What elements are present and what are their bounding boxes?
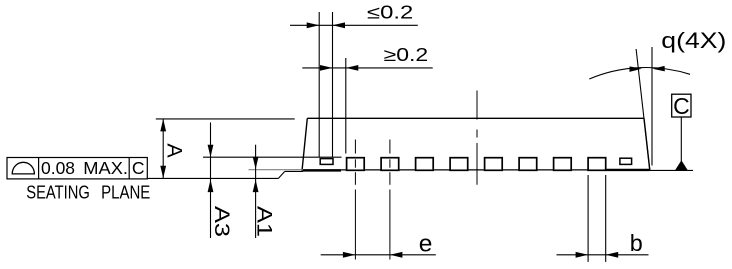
seating plane symbol (half dome) — [12, 162, 34, 174]
top extension line for A — [156, 118, 295, 120]
feature control frame box — [7, 158, 147, 179]
svg-text:A1: A1 — [253, 206, 277, 237]
svg-text:MAX.: MAX. — [83, 158, 128, 178]
extension line V2 (end-lead right edge) — [332, 12, 334, 157]
svg-text:0.08: 0.08 — [41, 158, 75, 178]
lead 6 — [519, 158, 537, 171]
arrowhead A1 down — [253, 157, 259, 170]
lead 3 — [416, 158, 434, 171]
end lead right (end view) — [620, 158, 632, 164]
lead 5 — [485, 158, 503, 171]
package bottom thick line right — [607, 169, 650, 171]
lead 1 — [347, 158, 365, 171]
e dimension line — [321, 254, 436, 256]
lead top extension line — [203, 156, 342, 158]
svg-text:A: A — [162, 143, 186, 158]
arrowhead e right — [390, 252, 403, 258]
right edge extension line (slanted) — [636, 49, 650, 170]
b extension line right — [605, 175, 607, 262]
arrowhead e left — [343, 252, 356, 258]
arrowhead b right — [606, 252, 619, 258]
arrowhead A3 down — [208, 145, 214, 158]
dimension A1 line — [255, 145, 257, 238]
svg-text:q(4X): q(4X) — [661, 28, 726, 53]
angle dimension arc — [589, 67, 690, 79]
extension line V3 (lead1 left edge) — [345, 58, 347, 154]
arrowhead GE0.2 left — [320, 65, 333, 71]
right vertical reference line — [651, 47, 653, 166]
arrowhead A1 up — [253, 180, 259, 193]
lead 4 — [450, 158, 468, 171]
seating plane line left — [147, 177, 278, 179]
dimension line LE 0.2 — [290, 24, 418, 26]
package centerline — [476, 91, 478, 185]
package bottom thick line left — [303, 169, 342, 172]
arrowhead A3 up — [208, 180, 214, 193]
datum C box — [672, 94, 691, 117]
lead 2 — [381, 158, 399, 171]
svg-text:C: C — [132, 158, 145, 178]
package body left edge (draft) — [302, 118, 307, 171]
lead 2 centerline — [389, 140, 391, 260]
seating plane line right — [650, 169, 694, 171]
b extension line left — [587, 175, 589, 262]
b dimension line — [557, 254, 649, 256]
svg-text:≤0.2: ≤0.2 — [367, 3, 413, 23]
lead 7 — [554, 158, 572, 171]
arrowhead angle left — [629, 66, 641, 72]
svg-text:C: C — [673, 93, 690, 119]
svg-text:SEATING: SEATING — [26, 182, 90, 203]
lead 8 — [588, 158, 606, 171]
svg-text:b: b — [630, 230, 643, 256]
lead 1 centerline — [354, 140, 356, 260]
dimension line GE 0.2 — [302, 67, 432, 69]
svg-text:A3: A3 — [210, 206, 234, 237]
lead bottom extension line (gray) — [249, 169, 304, 171]
package body top edge — [307, 117, 644, 119]
datum triangle — [675, 160, 689, 171]
svg-text:PLANE: PLANE — [101, 182, 150, 203]
seating plane jog — [278, 171, 284, 178]
dimension line A — [162, 119, 164, 178]
arrowhead angle right — [652, 66, 664, 72]
arrowhead GE0.2 right — [346, 65, 359, 71]
dimension A3 line — [210, 122, 212, 238]
arrowhead LE0.2 left — [307, 22, 320, 28]
end lead left (end view) — [320, 159, 333, 165]
svg-text:≥0.2: ≥0.2 — [384, 45, 429, 65]
arrowhead b left — [576, 252, 589, 258]
arrowhead LE0.2 right — [333, 22, 346, 28]
svg-text:e: e — [419, 230, 433, 257]
seating plane jog continuation — [285, 170, 303, 172]
lead seating baseline — [341, 169, 606, 171]
arrowhead A bottom — [160, 166, 166, 179]
arrowhead A top — [160, 119, 166, 131]
package body right edge (draft) — [644, 118, 650, 170]
extension line V1 (end-lead left edge) — [318, 12, 320, 157]
feature control frame divider 1 — [38, 158, 40, 179]
feature control frame divider 2 — [128, 158, 130, 179]
datum leader — [680, 117, 682, 161]
